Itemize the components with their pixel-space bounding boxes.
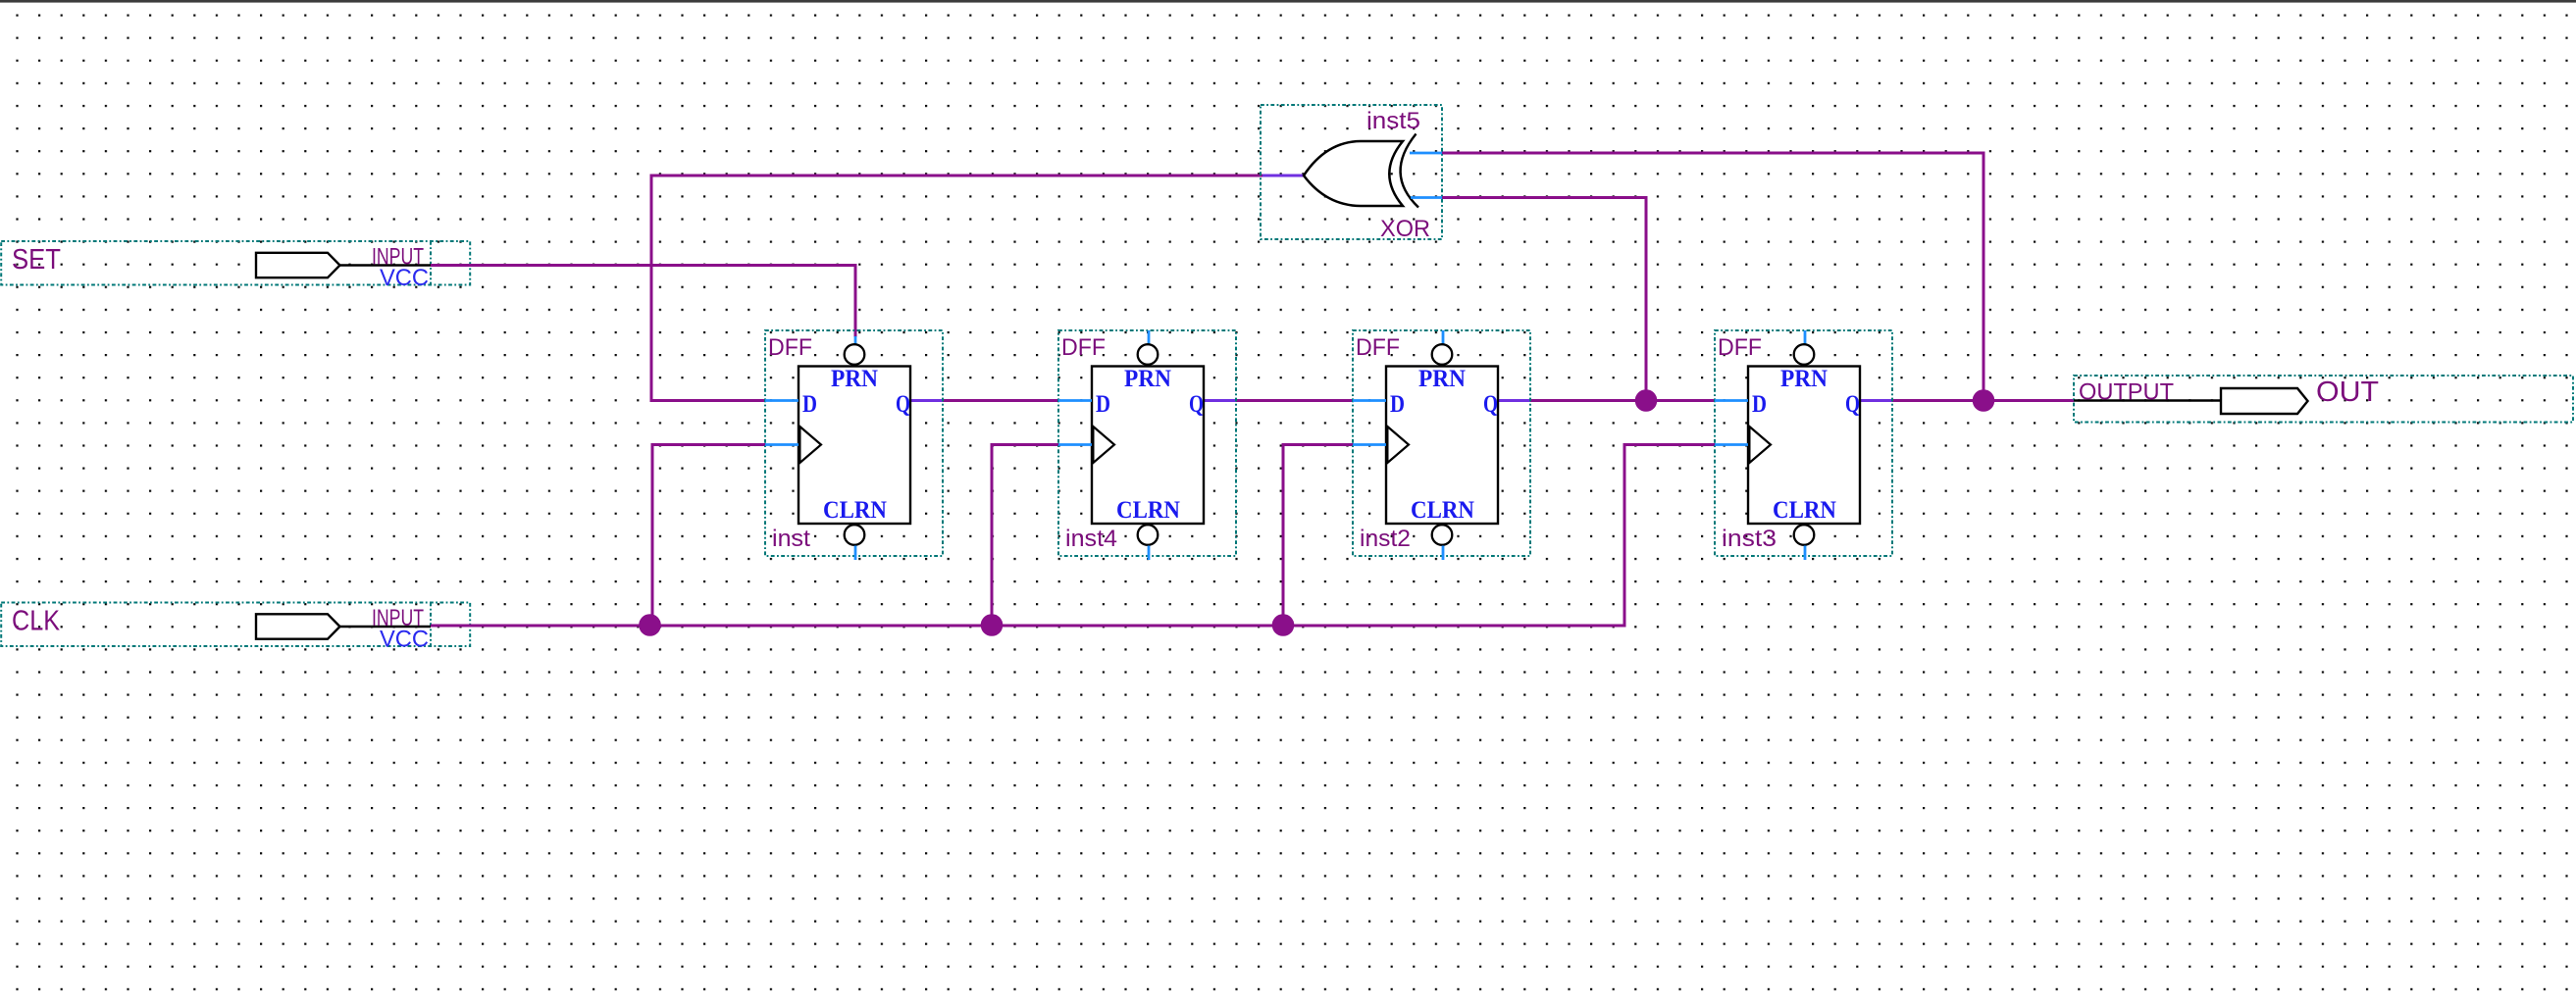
instance name inst4 xyxy=(1065,526,1117,552)
wire node CLK main run xyxy=(431,625,1626,628)
label DFF of inst3 xyxy=(1718,334,1762,361)
instance name inst3 xyxy=(1722,526,1777,552)
DFF inst4 bottom stub xyxy=(1148,546,1151,561)
flip-flop DFF inst2 selection box xyxy=(1353,330,1530,556)
input pin SET symbol xyxy=(256,253,431,277)
svg-text:VCC: VCC xyxy=(380,627,429,653)
DFF inst2 CLRN bubble xyxy=(1432,525,1453,545)
label DFF of inst4 xyxy=(1061,334,1106,361)
svg-text:CLRN: CLRN xyxy=(1116,497,1180,524)
junction on CLK at DFF inst2 xyxy=(1272,614,1295,636)
input pin SET selection box xyxy=(1,241,470,285)
DFF inst2 bottom stub xyxy=(1442,546,1445,561)
label DFF of inst xyxy=(768,334,812,361)
top border xyxy=(0,0,2576,3)
svg-text:Q: Q xyxy=(1845,391,1860,418)
label PRN of inst xyxy=(831,366,878,392)
svg-text:D: D xyxy=(1752,391,1767,418)
pin D label of inst xyxy=(802,391,817,418)
instance name inst2 xyxy=(1360,526,1411,552)
svg-text:inst5: inst5 xyxy=(1366,108,1420,134)
DFF inst body xyxy=(799,367,910,525)
svg-text:PRN: PRN xyxy=(1418,366,1466,392)
svg-text:Q: Q xyxy=(1483,391,1498,418)
DFF inst D input stub xyxy=(765,399,799,402)
junction on CLK at DFF inst4 xyxy=(981,614,1004,636)
DFF inst clock edge triangle xyxy=(799,427,821,463)
wire CLK to DFF inst3 clock xyxy=(1623,443,1717,628)
DFF inst4 D input stub xyxy=(1058,399,1092,402)
input pin CLK selection box xyxy=(1,603,470,647)
flip-flop DFF inst3 selection box xyxy=(1715,330,1892,556)
DFF inst bottom stub xyxy=(854,546,857,561)
svg-text:XOR: XOR xyxy=(1380,216,1430,242)
svg-text:CLRN: CLRN xyxy=(823,497,887,524)
svg-text:CLK: CLK xyxy=(12,606,61,637)
svg-text:D: D xyxy=(1096,391,1110,418)
label VCC xyxy=(380,265,429,291)
label DFF of inst2 xyxy=(1356,334,1400,361)
label VCC xyxy=(380,627,429,653)
svg-text:Q: Q xyxy=(896,391,910,418)
label INPUT xyxy=(372,244,424,271)
DFF inst2 top stub xyxy=(1442,330,1445,345)
svg-text:inst4: inst4 xyxy=(1065,526,1117,552)
DFF inst3 body xyxy=(1748,367,1860,525)
XOR inst5 output stub xyxy=(1262,175,1306,177)
pin Q label of inst xyxy=(896,391,910,418)
label CLRN of inst xyxy=(823,497,887,524)
svg-text:PRN: PRN xyxy=(1124,366,1171,392)
label OUTPUT xyxy=(2079,379,2174,406)
wire SET to DFF inst PRN xyxy=(431,264,857,337)
DFF inst2 PRN bubble xyxy=(1432,344,1453,365)
svg-text:inst2: inst2 xyxy=(1360,526,1411,552)
DFF inst3 clock input stub xyxy=(1715,443,1748,446)
label PRN of inst2 xyxy=(1418,366,1466,392)
svg-text:DFF: DFF xyxy=(768,334,812,361)
pin D label of inst3 xyxy=(1752,391,1767,418)
junction on CLK at DFF inst xyxy=(639,614,661,636)
DFF inst3 top stub xyxy=(1804,330,1807,345)
DFF inst PRN bubble xyxy=(845,344,865,365)
DFF inst2 clock input stub xyxy=(1353,443,1386,446)
svg-text:OUTPUT: OUTPUT xyxy=(2079,379,2174,406)
DFF inst2 clock edge triangle xyxy=(1387,427,1409,463)
XOR gate inst5 selection box xyxy=(1261,105,1442,239)
wire DFF inst2 Q to DFF inst3 D xyxy=(1498,399,1716,402)
wire DFF inst3 Q to OUTPUT pin xyxy=(1860,399,2074,402)
DFF inst4 PRN bubble xyxy=(1138,344,1159,365)
output pin OUT selection box xyxy=(2074,376,2573,423)
svg-text:D: D xyxy=(1390,391,1405,418)
DFF inst clock input stub xyxy=(765,443,799,446)
label CLRN of inst4 xyxy=(1116,497,1180,524)
pin name SET xyxy=(12,244,61,276)
instance name inst5 xyxy=(1366,108,1420,134)
svg-text:SET: SET xyxy=(12,244,61,276)
label INPUT xyxy=(372,605,424,631)
DFF inst4 clock input stub xyxy=(1058,443,1092,446)
input pin CLK symbol xyxy=(256,614,431,638)
label CLRN of inst2 xyxy=(1411,497,1474,524)
label PRN of inst4 xyxy=(1124,366,1171,392)
DFF inst4 clock edge triangle xyxy=(1093,427,1114,463)
svg-text:inst3: inst3 xyxy=(1722,526,1777,552)
svg-text:DFF: DFF xyxy=(1061,334,1106,361)
wire XOR lower input from node A xyxy=(1442,196,1648,402)
DFF inst top stub xyxy=(854,336,857,345)
pin D label of inst2 xyxy=(1390,391,1405,418)
output pin OUT symbol xyxy=(2074,388,2308,414)
XOR inst5 body xyxy=(1304,141,1403,206)
pin Q label of inst2 xyxy=(1483,391,1498,418)
DFF inst3 clock edge triangle xyxy=(1749,427,1771,463)
wire XOR upper input from node B xyxy=(1442,152,1985,403)
flip-flop DFF inst selection box xyxy=(765,330,943,556)
svg-text:inst: inst xyxy=(772,526,810,552)
flip-flop DFF inst4 selection box xyxy=(1058,330,1236,556)
label XOR xyxy=(1380,216,1430,242)
DFF inst3 bottom stub xyxy=(1804,546,1807,561)
svg-text:CLRN: CLRN xyxy=(1411,497,1474,524)
svg-text:D: D xyxy=(802,391,817,418)
label CLRN of inst3 xyxy=(1773,497,1836,524)
label PRN of inst3 xyxy=(1780,366,1828,392)
XOR inst5 input-side double arc xyxy=(1401,134,1418,208)
DFF inst4 top stub xyxy=(1148,330,1151,345)
wire DFF inst Q to DFF inst4 D xyxy=(910,399,1059,402)
svg-text:DFF: DFF xyxy=(1356,334,1400,361)
DFF inst CLRN bubble xyxy=(845,525,865,545)
instance name inst xyxy=(772,526,810,552)
svg-text:CLRN: CLRN xyxy=(1773,497,1836,524)
svg-text:VCC: VCC xyxy=(380,265,429,291)
wire XOR output to DFF inst D xyxy=(650,175,1264,403)
pin D label of inst4 xyxy=(1096,391,1110,418)
DFF inst3 CLRN bubble xyxy=(1794,525,1815,545)
svg-text:PRN: PRN xyxy=(1780,366,1828,392)
DFF inst4 body xyxy=(1092,367,1204,525)
DFF inst3 PRN bubble xyxy=(1794,344,1815,365)
DFF inst3 D input stub xyxy=(1715,399,1748,402)
svg-text:PRN: PRN xyxy=(831,366,878,392)
wire CLK to DFF inst4 clock xyxy=(991,443,1060,628)
svg-text:DFF: DFF xyxy=(1718,334,1762,361)
pin Q label of inst4 xyxy=(1189,391,1204,418)
wire CLK to DFF inst clock xyxy=(651,443,767,628)
DFF inst2 body xyxy=(1386,367,1498,525)
wire CLK to DFF inst2 clock xyxy=(1282,443,1355,628)
DFF inst4 CLRN bubble xyxy=(1138,525,1159,545)
XOR inst5 upper input stub xyxy=(1410,152,1442,155)
DFF inst2 D input stub xyxy=(1353,399,1386,402)
XOR inst5 lower input stub xyxy=(1411,196,1442,199)
junction node A on inst2 Q xyxy=(1635,389,1658,412)
pin name CLK xyxy=(12,606,61,637)
junction node B on inst3 Q xyxy=(1973,389,1995,412)
svg-text:OUT: OUT xyxy=(2316,377,2379,408)
svg-text:Q: Q xyxy=(1189,391,1204,418)
wire DFF inst4 Q to DFF inst2 D xyxy=(1204,399,1354,402)
pin name OUT xyxy=(2316,377,2379,408)
pin Q label of inst3 xyxy=(1845,391,1860,418)
